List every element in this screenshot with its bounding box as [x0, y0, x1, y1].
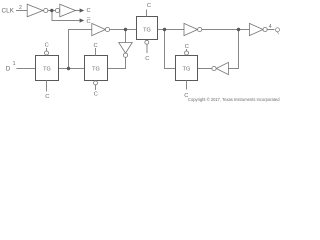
- TG2 bottom control bubble: [94, 81, 98, 85]
- wire down to inverter U4: [125, 30, 127, 43]
- TG3 top control stub: [146, 9, 148, 16]
- wire TG3 out to inverter U5: [158, 29, 185, 31]
- svg-text:TG: TG: [43, 66, 51, 72]
- junction node M: [67, 67, 70, 70]
- svg-text:C: C: [145, 56, 149, 62]
- svg-text:4: 4: [269, 24, 272, 30]
- svg-text:2: 2: [19, 5, 22, 11]
- transmission gate TG3: [137, 17, 158, 40]
- junction dot clock: [50, 9, 53, 12]
- inverter U5 (slave): [184, 23, 198, 35]
- svg-text:1: 1: [13, 61, 16, 67]
- svg-text:CLK: CLK: [2, 8, 15, 15]
- TG1 top control bubble: [45, 51, 49, 55]
- wire D input: [17, 68, 36, 70]
- transmission gate TG1: [36, 56, 59, 81]
- wire node P down to inverter U7: [228, 30, 238, 69]
- TG2 bottom control stub: [95, 85, 97, 90]
- wire node S down to TG4 left side: [165, 30, 176, 69]
- wire branch to Cbar arrow: [52, 11, 80, 21]
- svg-text:TG: TG: [143, 27, 151, 33]
- TG1 bottom control stub: [46, 81, 48, 92]
- svg-text:Copyright © 2017, Texas Instru: Copyright © 2017, Texas Instruments Inco…: [188, 97, 280, 102]
- svg-text:C: C: [185, 44, 189, 50]
- wire node M up to inverter U3: [69, 30, 92, 69]
- svg-text:C: C: [94, 92, 98, 98]
- wire U4 out to TG2 right side: [108, 57, 126, 68]
- wire U5 out to output inverter: [202, 29, 250, 31]
- transmission gate TG4: [176, 56, 198, 81]
- inverter U3 (master loop): [92, 23, 106, 35]
- transmission gate TG2: [85, 56, 108, 81]
- junction node after U3: [124, 28, 127, 31]
- TG3 bottom control bubble: [145, 40, 149, 44]
- svg-text:Q: Q: [275, 27, 280, 34]
- TG4 top control bubble: [185, 51, 189, 55]
- svg-text:C: C: [147, 3, 151, 9]
- TG3 bottom control stub: [146, 45, 148, 54]
- inverter U1 (clock): [27, 4, 43, 17]
- svg-text:TG: TG: [92, 66, 100, 72]
- svg-text:C: C: [93, 43, 97, 49]
- svg-text:D: D: [6, 66, 11, 73]
- TG1 top control stub: [46, 48, 48, 51]
- svg-text:C: C: [87, 19, 91, 25]
- overbar of Cbar: [87, 16, 90, 18]
- inverter U2 (clock, bubble on input): [55, 8, 59, 12]
- svg-text:C: C: [45, 94, 49, 100]
- inverter U4 (down-pointing, master feedback): [119, 43, 133, 54]
- inverter U7 (left-pointing, slave feedback): [216, 62, 228, 74]
- svg-text:C: C: [87, 8, 91, 14]
- svg-text:C: C: [45, 43, 49, 49]
- wire U7 out to TG4 right side: [198, 68, 212, 70]
- arrowhead to Cbar: [80, 18, 85, 22]
- wire U1 out to U2: [48, 10, 56, 12]
- wire CLK input: [16, 10, 27, 12]
- inverter U6 (output): [249, 23, 263, 35]
- wire TG1 out to TG2: [59, 68, 85, 70]
- junction node S: [163, 28, 166, 31]
- wire U2 out to C arrow: [75, 10, 80, 12]
- svg-text:TG: TG: [183, 66, 191, 72]
- wire to Q pin: [267, 29, 274, 31]
- arrowhead to C: [80, 8, 85, 12]
- junction node P: [237, 28, 240, 31]
- wire U3 out to TG3: [110, 29, 137, 31]
- TG4 top control stub: [186, 49, 188, 51]
- TG2 top control stub: [95, 48, 97, 56]
- TG4 bottom control stub: [186, 81, 188, 90]
